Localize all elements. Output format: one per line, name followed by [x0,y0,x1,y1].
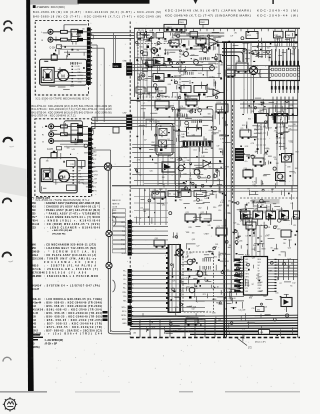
black row marks parts list [32,334,41,335]
svg-text:D12: D12 [292,283,295,285]
svg-text:IC9: IC9 [241,128,244,130]
svg-text:220: 220 [149,95,152,97]
wire label pads outside border [103,311,108,314]
svg-text:P03: P03 [245,271,248,273]
hatch rows mid cluster [176,114,178,118]
IC9 black connector box [235,148,244,161]
svg-text:1uF: 1uF [204,198,207,200]
svg-text:D22: D22 [263,159,266,161]
vertical drops to bottom dashed border [139,319,141,338]
svg-text:Q4: Q4 [186,254,188,256]
svg-text:C84: C84 [256,275,259,277]
svg-text:: 2SB1302/MA x 4 PCS/FM-MOD: : 2SB1302/MA x 4 PCS/FM-MOD [44,275,98,278]
mechanism box block2 [41,169,53,182]
CN5 pad row [183,141,185,146]
rounded box tape control mid [175,109,213,186]
svg-text:Q76: Q76 [240,220,243,222]
svg-text:CE: CE [258,271,260,273]
svg-text:A60: A60 [32,202,37,205]
component cluster bus gap zone [154,212,155,213]
svg-text:: 2SK192A-GR + 25C1815 (Y): : 2SK192A-GR + 25C1815 (Y) [44,268,98,271]
svg-text:C65: C65 [71,85,74,87]
wires block1 to schematic top [91,32,135,34]
small box row below mid bus [168,191,178,197]
svg-text:C120: C120 [171,38,175,40]
svg-text:Q18: Q18 [215,63,218,65]
svg-text:X14-930: X14-930 [153,121,160,123]
svg-text:D55: D55 [168,194,171,196]
op-amp U3 triangle [209,38,218,47]
label tick column block1 [72,63,74,64]
svg-text:MUTE: MUTE [92,171,98,173]
header note line A [33,5,36,8]
svg-text:L65: L65 [208,225,211,227]
svg-text:D72: D72 [173,330,176,332]
transistors Q201 Q202 [178,165,184,171]
CN5 pad row thick underlay [183,141,211,147]
svg-text:R12: R12 [214,257,217,259]
svg-text:D43: D43 [178,113,181,115]
svg-text:R73: R73 [177,85,180,87]
svg-text:L24: L24 [172,236,175,238]
wires top band [175,32,224,34]
svg-text:0.01: 0.01 [209,130,212,132]
svg-text:GND: GND [122,235,127,237]
svg-text:CN201: CN201 [156,99,162,101]
svg-text:Q31: Q31 [185,257,188,259]
wires motor2 to strip [70,173,89,175]
svg-text:C4-1.4E: C4-1.4E [239,309,247,311]
svg-text:47u: 47u [168,77,171,79]
svg-text:R6: R6 [279,255,281,257]
switch S802 block2 [51,153,57,158]
svg-text:R52: R52 [296,152,299,154]
component cluster power supply zone [231,306,237,308]
svg-text:R65: R65 [269,271,272,273]
svg-text:C47: C47 [179,191,182,193]
svg-text:R601 C603 L604: R601 C603 L604 [137,35,150,37]
svg-text:D63: D63 [260,112,263,114]
svg-text:: B56L-058-42 : KDC-2049 (TR-: : B56L-058-42 : KDC-2049 (TR-204) [44,309,102,312]
svg-text:L95: L95 [170,158,173,160]
component cluster head amp zone pass2 [209,42,217,44]
svg-text:B17-5 30-4X: B17-5 30-4X [32,272,46,275]
svg-text:: B56- 058-25 : KDC-2049/49: : B56- 058-25 : KDC-2049/49 (TR-205) [44,315,102,318]
svg-text:R66: R66 [248,118,251,120]
wires into IC601 left side [227,65,271,67]
svg-text:Q43: Q43 [32,322,37,325]
connector CN6 top label box [164,24,185,31]
svg-text:: LCD MODULE B38-0690-05 (FL T: : LCD MODULE B38-0690-05 (FL TUBE) [44,299,102,301]
top border pin ticks [138,28,140,31]
svg-text:F05-4: F05-4 [32,219,39,222]
svg-text:: B56- 058-45 : KDC-2049/49: : B56- 058-45 : KDC-2049/49 (TR-204) [44,312,102,315]
plug R block1 [61,38,68,41]
svg-text:330: 330 [229,245,232,247]
svg-text:100: 100 [246,217,249,219]
svg-text:FL-: FL- [124,279,127,281]
svg-text:C12: C12 [160,95,163,97]
svg-text:Q36: Q36 [239,241,242,243]
svg-text:L1: L1 [229,298,231,300]
svg-text:Q61: Q61 [181,54,184,56]
IC601 top pins [271,49,273,66]
svg-text:0.01: 0.01 [193,150,196,152]
svg-text:330: 330 [281,177,284,179]
svg-text:: * PANEL ASSY (T-47) + *(T): : * PANEL ASSY (T-47) + *(T)REMOTE [44,213,100,216]
main board dashed border bottom [130,337,300,339]
svg-text:L66: L66 [133,333,136,335]
svg-text:KDC-2049/49 (X,T,C) (T-47) (SI: KDC-2049/49 (X,T,C) (T-47) (SINGAPORE MA… [165,14,251,18]
tuner box below IC601 [269,108,298,116]
svg-text:R83: R83 [74,144,77,146]
svg-text:X202: X202 [187,97,191,99]
svg-text:330: 330 [212,77,215,79]
svg-text:SP.L: SP.L [92,186,96,188]
svg-text:C53: C53 [195,288,198,290]
plug bodies block2 [77,125,83,128]
ground wire jack loop block1 [63,25,65,31]
svg-text:: B56- 058-35 : KDC-2049 (TR: : B56- 058-35 : KDC-2049 (TR-205) [44,319,102,322]
op-amp triangle y92 [213,89,220,96]
op-amp triangle mid [203,160,210,167]
svg-text:RADIO IN: RADIO IN [112,199,121,202]
binder ring mark 1 [4,138,13,142]
IC8 mid right [274,114,288,124]
svg-text:0.022: 0.022 [200,36,204,38]
svg-text:R86: R86 [142,80,145,82]
IC10 CD decoder [244,257,268,296]
pointer line to label J72 [237,338,247,346]
left margin gray streak [0,164,27,197]
head pad block1 [46,73,50,78]
connector J2 strip (block2 right edge) [88,128,92,193]
svg-text:REC: REC [79,177,84,179]
svg-text:220: 220 [154,50,157,52]
svg-text:A.IN: A.IN [92,146,96,149]
left connector strip B1 [128,220,132,256]
svg-text:R6: R6 [77,50,79,52]
svg-text:GND: GND [112,210,117,212]
op-amp IC101b [153,74,164,82]
svg-text:220: 220 [264,207,267,209]
svg-text:Q45: Q45 [280,209,283,211]
svg-text:C-CH: C-CH [50,48,56,50]
small box row below CD label [241,211,251,219]
connector CN6 mid-left [126,62,132,75]
tall filter box block1 [71,29,78,41]
svg-text:: B57- 058-52 : KDC-2049/49: : B57- 058-52 : KDC-2049/49 (TR) [44,322,102,325]
svg-text:Q53: Q53 [288,248,291,250]
svg-text:47u: 47u [245,161,248,163]
svg-text:D50: D50 [168,84,171,86]
component cluster cd logic pass2 [263,200,270,202]
IC601 power amp top right [269,66,300,81]
svg-text:REC: REC [78,72,83,74]
svg-text:D85: D85 [219,255,222,257]
servo box left edge [168,245,181,313]
svg-text:C85: C85 [212,94,215,96]
svg-text:D71: D71 [178,329,181,331]
svg-text:L4: L4 [279,143,281,145]
svg-text:G: G [42,141,44,143]
jack 2 block2 [49,132,54,137]
svg-text:100: 100 [201,144,204,146]
svg-text:Q1-15: Q1-15 [32,313,39,315]
label box P602 [200,20,209,25]
svg-text:Q79: Q79 [141,30,144,32]
svg-text:R84: R84 [165,108,168,110]
svg-text:L28: L28 [193,201,196,203]
svg-text:R65: R65 [145,68,148,70]
svg-text:L-CH: L-CH [92,179,97,181]
svg-text:IC201: IC201 [177,126,182,128]
jack L block1 [48,29,53,34]
power supply dashed box [183,252,214,312]
IC201 box [187,128,202,137]
svg-text:Q24: Q24 [197,322,200,324]
svg-text:IC202: IC202 [217,102,222,104]
svg-text:Q51: Q51 [160,80,163,82]
svg-text:Q64: Q64 [149,121,152,123]
svg-text:CN9: CN9 [155,238,159,240]
relay box RY1 top [246,32,258,39]
svg-text:R98: R98 [249,297,252,299]
svg-text:D21: D21 [218,131,221,133]
wires motor to strip block1 [69,72,87,74]
wires strip B3 right [132,307,205,309]
wires CN6 into board [132,64,175,66]
svg-text:X21-3500-00 (TAPE MECHANISM): X21-3500-00 (TAPE MECHANISM) B:5-2 [35,98,90,101]
svg-text:(TR-2049 FE): (TR-2049 FE) [52,233,66,236]
svg-text:1uF: 1uF [201,62,204,64]
svg-text:1uF: 1uF [277,137,280,139]
svg-text:A VERSION : KDC-5 (KDC): A VERSION : KDC-5 (KDC) [37,6,65,9]
bus companion verticals right [230,42,232,300]
svg-text:{: { [259,68,262,78]
svg-text:X41-14 3-6: X41-14 3-6 [32,309,44,312]
label box P601 [179,20,187,25]
component cluster gap topleft corner [148,40,150,42]
svg-text:S-REV: S-REV [78,75,85,77]
component cluster tape control zone [223,139,225,146]
svg-text:IC601: IC601 [253,66,259,68]
connector CN7 mid-left [126,115,132,130]
svg-text:Q91: Q91 [222,117,225,119]
svg-text:C46: C46 [186,35,189,37]
svg-text:: CHASSIS (F) ASSY A02-0604-05: : CHASSIS (F) ASSY A02-0604-05 (J) *1 [44,206,101,209]
svg-text:AM-MOD: AM-MOD [32,275,42,278]
svg-text:X43L-14: X43L-14 [32,298,42,301]
svg-text:G06-10: G06-10 [32,252,40,254]
main power bus thick horizontal [222,41,298,43]
dashed sub-box tape head amp [138,44,180,98]
verticals under bus into IC7 IC8 [243,43,245,62]
svg-text:Q1: Q1 [182,51,184,53]
motor M1 block1 [58,70,69,81]
svg-text:R45: R45 [295,43,298,45]
svg-text:D31: D31 [213,44,216,46]
svg-text:KEY0: KEY0 [245,274,249,276]
svg-text:220: 220 [64,135,67,137]
svg-text:D59: D59 [269,127,272,129]
svg-text:R71: R71 [203,294,206,296]
svg-text:A10: A10 [32,206,37,209]
svg-text:P601: P601 [179,22,183,24]
svg-text:KEY1: KEY1 [245,277,249,279]
svg-text:W01-5: W01-5 [32,265,40,267]
component cluster head amp zone [164,40,167,42]
svg-text:D62: D62 [181,274,184,276]
svg-text:REW: REW [78,63,83,65]
svg-text:C-CH: C-CH [47,149,53,151]
resistor hatch rows [199,57,201,60]
svg-text:D18: D18 [290,105,293,107]
svg-text:SP.R+: SP.R+ [121,315,127,317]
page spine black bar (left edge) [26,0,34,391]
svg-text:R95: R95 [290,54,293,56]
mid horizontal wires pass3 [132,152,175,154]
svg-text:R97: R97 [136,45,139,47]
brace bracket 2 [113,280,116,292]
svg-text:C91: C91 [293,225,296,227]
svg-text:: CD MECHANISM X25-6050-11 (J7: : CD MECHANISM X25-6050-11 (J72) [44,244,96,247]
svg-text:KDC-2049/49 (M,X) (K-BT) (JAPA: KDC-2049/49 (M,X) (K-BT) (JAPAN MARK) [165,9,251,13]
dolby box row y87 [136,87,145,93]
power transistor bottom right [281,298,292,307]
servo box dark left edge [168,245,169,313]
pads head amp [168,58,171,61]
long vertical wires down page left [92,166,130,168]
main board dashed border left [129,22,131,338]
svg-text:47u: 47u [274,131,277,133]
svg-text:VREF: VREF [258,285,262,287]
svg-text:C26: C26 [233,223,236,225]
svg-text:R44: R44 [228,213,231,215]
svg-text:B43: B43 [32,305,37,308]
svg-text:FR-: FR- [123,283,127,285]
svg-text:Q33: Q33 [192,239,195,241]
motor inner detail block2 [60,171,68,173]
svg-text:D31: D31 [215,244,218,246]
svg-text:: TUNER UNIT (FM, AM) BL-xx: : TUNER UNIT (FM, AM) BL-xx [44,257,97,260]
CD operation section label [240,197,298,199]
svg-text:C56: C56 [275,293,278,295]
svg-text:Q23: Q23 [217,226,220,228]
component cluster power pass2 [229,296,231,300]
bias oscillator cluster [184,52,189,57]
publisher stamp bottom-left [4,399,15,410]
junction circle-plus left [104,163,111,170]
mid cluster wires [189,147,191,186]
dolby boxes [181,86,191,93]
motor M2 block2 [59,171,70,182]
svg-text:0.01: 0.01 [154,59,157,61]
svg-text:B41/41-4: B41/41-4 [32,284,42,287]
CN6 wires extended [175,64,213,66]
svg-text:R28: R28 [189,227,192,229]
svg-text:L82: L82 [276,39,279,41]
svg-text:L81: L81 [213,247,216,249]
svg-text:D81: D81 [154,163,157,165]
svg-text:B41-3751-04 : KDC-2049/49 (M,X: B41-3751-04 : KDC-2049/49 (M,X) (K-BT) B… [32,106,112,108]
IC7 mid right [255,114,269,124]
svg-text:1uF: 1uF [255,208,258,210]
svg-text:D96: D96 [254,130,257,132]
svg-text:47u: 47u [214,82,217,84]
svg-text:: - LENS CLEANER + B1845/B40: : - LENS CLEANER + B1845/B40 [44,226,101,229]
svg-text:C24: C24 [273,157,276,159]
svg-text:Q39: Q39 [214,67,217,69]
svg-text:D61: D61 [173,35,176,37]
svg-text:Q4: Q4 [174,76,176,78]
component cluster block2 upper [84,152,88,154]
verticals above decoder IC [247,226,249,257]
sub-board dashed divider [232,105,234,198]
svg-text:P02: P02 [245,268,248,270]
svg-text:E23: E23 [32,227,37,229]
svg-text:SENS: SENS [121,253,127,255]
svg-text:220: 220 [274,159,277,161]
svg-text:GND: GND [92,151,97,153]
svg-text:B41m-44: B41m-44 [32,302,42,305]
svg-text:Q59: Q59 [253,184,256,186]
component cluster gap q-row zone [293,216,295,217]
svg-text:Q59: Q59 [247,50,250,52]
svg-text:220: 220 [82,28,85,30]
registration tick top right [272,0,274,4]
svg-text:0.01: 0.01 [267,206,270,208]
svg-text:D76: D76 [209,89,212,91]
svg-text:J25: J25 [187,316,190,318]
long bus line y100 [130,99,298,101]
svg-text:: LOADING BELT T42-0650-05 (N2: : LOADING BELT T42-0650-05 (N2) [44,247,96,250]
page bottom edge gray line [0,391,47,392]
svg-text:330: 330 [143,87,146,89]
svg-text:CN601: CN601 [166,27,173,29]
svg-text:L7: L7 [143,103,145,105]
bottom bus fan [131,315,299,317]
caps C101-C103 [143,52,148,56]
svg-text:XT1: XT1 [245,288,248,290]
svg-text:D85: D85 [220,65,223,67]
main board top border [134,27,300,29]
svg-text:(NOTE): (NOTE) [32,347,40,349]
svg-text:C31: C31 [251,308,254,310]
mid horizontal bus [112,185,298,187]
svg-text:: L-CH SP818 (W): : L-CH SP818 (W) [44,340,63,342]
extra component boxes (mid-size) [155,101,169,108]
svg-text:D11-13: D11-13 [32,224,40,226]
svg-text:: - 2SB778 (F1.4A PL/R) A: : - 2SB778 (F1.4A PL/R) A [44,264,96,267]
registration tick top center [194,0,198,4]
head amp wires [148,60,153,62]
svg-text:TAPE IN: TAPE IN [112,202,120,205]
svg-text:100: 100 [260,56,263,58]
svg-text:C77: C77 [290,31,293,33]
component cluster cd logic zone [296,216,304,218]
extra structural wires pass2 [135,57,152,59]
resistor ladder under IC8 [276,123,278,150]
bias cluster wires [180,61,222,63]
motor inner detail block1 [60,70,68,72]
jack 3 block2 [49,139,54,144]
wires below X14 [157,155,159,186]
svg-text:Q14: Q14 [196,45,199,47]
svg-text:R21: R21 [193,49,196,51]
switch S801 block1 [51,55,57,60]
connector J1 strip (block1 right edge) [87,28,91,86]
